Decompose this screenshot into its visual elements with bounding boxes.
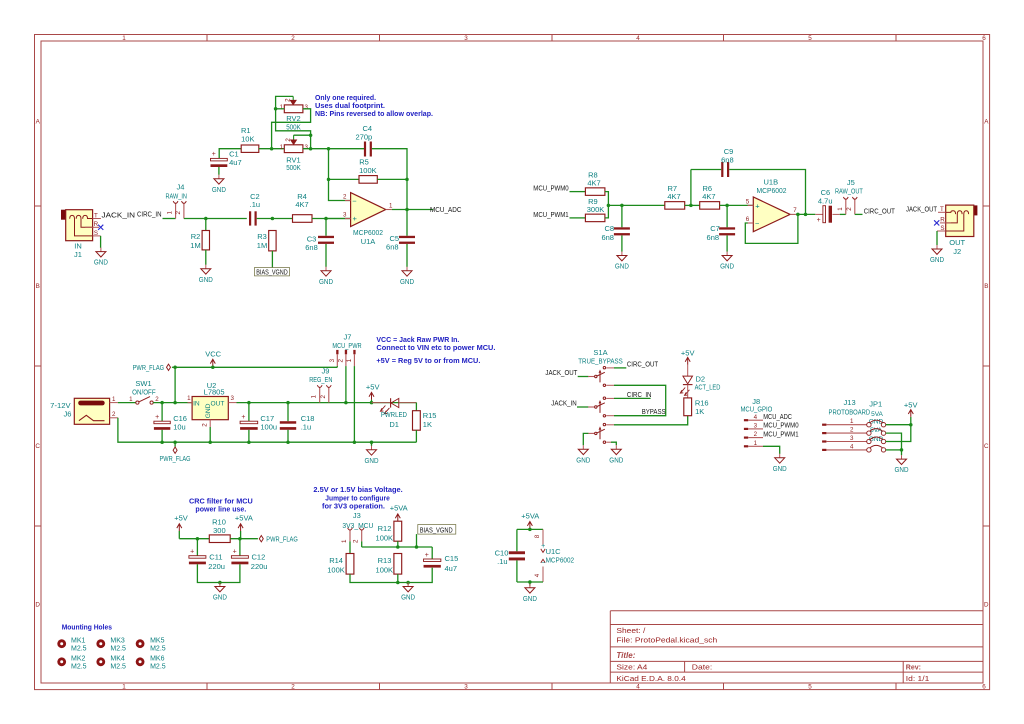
- svg-text:BIAS_VGND: BIAS_VGND: [256, 269, 288, 276]
- ground GND at C3: [325, 267, 327, 271]
- svg-text:M2.5: M2.5: [110, 664, 126, 671]
- svg-text:Size: A4: Size: A4: [616, 665, 647, 672]
- svg-text:6n8: 6n8: [305, 243, 318, 252]
- ground GND at JP1: [901, 455, 903, 459]
- wire bias mid rail: [362, 546, 433, 548]
- ground GND at S1A common: [582, 445, 584, 449]
- wire J2 sleeve to ground: [936, 231, 938, 245]
- svg-text:3: 3: [464, 35, 468, 42]
- svg-text:3: 3: [343, 212, 347, 219]
- svg-text:3: 3: [329, 358, 336, 362]
- svg-text:4K7: 4K7: [702, 192, 715, 201]
- svg-text:4.7u: 4.7u: [818, 197, 833, 206]
- svg-text:MCU_PWM0: MCU_PWM0: [533, 184, 568, 193]
- svg-text:4: 4: [850, 443, 854, 450]
- wire VCC rail: [175, 366, 337, 368]
- junction VCC rail: [211, 366, 215, 370]
- jumper JP1 element 1: [867, 423, 871, 427]
- junction at C9 branch: [689, 204, 693, 208]
- connector J4 pin 1: [175, 203, 177, 218]
- wire S1A common3 to ground: [583, 433, 588, 445]
- svg-text:+: +: [755, 202, 760, 211]
- svg-text:6n8: 6n8: [386, 243, 399, 252]
- svg-text:J3: J3: [353, 511, 361, 520]
- wire C7 top: [726, 205, 728, 227]
- junction R5 left: [327, 178, 331, 182]
- svg-text:Id: 1/1: Id: 1/1: [906, 676, 930, 683]
- svg-text:4: 4: [636, 684, 640, 691]
- mounting hole MK3: [96, 639, 105, 648]
- svg-text:10u: 10u: [173, 422, 186, 431]
- svg-text:GND: GND: [615, 262, 629, 271]
- svg-text:220u: 220u: [208, 562, 225, 571]
- mounting hole MK6: [136, 657, 145, 666]
- resistor R14: [346, 554, 354, 575]
- svg-text:ACT_LED: ACT_LED: [695, 383, 721, 392]
- svg-text:100K: 100K: [359, 166, 377, 175]
- junction at C17 top: [247, 401, 251, 405]
- svg-text:−: −: [755, 219, 760, 228]
- svg-text:GND: GND: [213, 593, 227, 602]
- svg-text:1: 1: [341, 539, 348, 543]
- svg-text:−: −: [352, 197, 357, 206]
- wire JP1 row4 to ground: [886, 449, 902, 451]
- wire C1 corner to R1: [219, 149, 241, 159]
- svg-text:1: 1: [112, 396, 116, 403]
- resistor R16: [684, 398, 692, 416]
- wire C9 right to output: [729, 170, 805, 215]
- svg-text:GND: GND: [319, 277, 333, 286]
- wire CIRC_IN to J4 pin 1: [163, 218, 176, 220]
- junction at C8 top: [620, 204, 624, 208]
- wire J6 pin1 to SW1: [118, 402, 136, 404]
- wire C6 to J5 pin1: [840, 213, 846, 215]
- junction U2 ground rail: [208, 440, 212, 444]
- ground GND at C1: [218, 175, 220, 179]
- svg-text:B: B: [984, 283, 988, 290]
- svg-text:4u7: 4u7: [445, 564, 458, 573]
- wire U2 out to +5V rail: [237, 402, 417, 404]
- wire R13 bottom: [397, 574, 399, 582]
- wire R12 bottom: [397, 541, 399, 547]
- connector J13 pin 1: [822, 424, 826, 426]
- svg-text:1: 1: [389, 202, 393, 209]
- svg-text:.1u: .1u: [250, 200, 260, 209]
- svg-text:4: 4: [636, 35, 640, 42]
- svg-text:4u7: 4u7: [229, 158, 242, 167]
- resistor R3: [269, 231, 276, 251]
- wire C9 left: [691, 169, 721, 171]
- junction bias mid: [396, 545, 400, 549]
- switch S1A pole 2: [588, 406, 594, 408]
- svg-text:4: 4: [534, 573, 541, 577]
- wire opamp pin2 vertical: [329, 149, 351, 201]
- junction U1B output feedback: [796, 213, 800, 217]
- junction at C11 top: [196, 537, 200, 541]
- wire C7 bottom: [726, 236, 728, 252]
- svg-text:R: R: [940, 216, 945, 223]
- svg-text:6n8: 6n8: [601, 233, 614, 242]
- svg-text:+: +: [212, 151, 216, 158]
- svg-text:+5VA: +5VA: [521, 512, 539, 521]
- svg-text:T: T: [94, 212, 98, 219]
- wire C17 bottom: [248, 430, 250, 442]
- svg-text:C11: C11: [209, 552, 222, 561]
- ground GND at C8: [621, 252, 623, 256]
- svg-text:OUT: OUT: [211, 400, 225, 407]
- wire D1 to R15: [415, 403, 417, 411]
- wire bias bottom rail: [350, 568, 432, 583]
- sheet border division ticks: [206, 35, 208, 42]
- op-amp U1B: [753, 197, 790, 232]
- svg-text:2: 2: [285, 98, 292, 102]
- wire opamp pin3 stub: [324, 218, 350, 220]
- junction at C7 top: [725, 204, 729, 208]
- wire R2 bottom: [205, 250, 207, 265]
- svg-text:R: R: [94, 221, 99, 228]
- svg-text:300: 300: [213, 526, 226, 535]
- wire RV1 wiper link: [294, 134, 311, 136]
- svg-text:Sheet: /: Sheet: /: [616, 628, 645, 635]
- svg-text:U1A: U1A: [361, 237, 376, 246]
- svg-text:1M: 1M: [190, 241, 200, 250]
- svg-text:Date:: Date:: [692, 665, 713, 672]
- op-amp U1C power pins: [542, 529, 544, 545]
- svg-text:3V3_MCU: 3V3_MCU: [342, 521, 373, 530]
- wire JP1 ground stem: [901, 450, 903, 455]
- svg-text:JACK_IN: JACK_IN: [102, 210, 136, 219]
- connector J13 pin 2: [822, 432, 826, 434]
- svg-text:GND: GND: [212, 185, 226, 194]
- wire U1C gnd stem: [529, 582, 531, 586]
- no-connect X on J1 ring pin: [98, 225, 103, 230]
- junction U1C bottom: [528, 580, 532, 584]
- svg-text:J4: J4: [177, 183, 185, 192]
- potentiometer RV2 body: [284, 105, 303, 113]
- wire C8 bottom: [621, 236, 623, 252]
- svg-text:MK4: MK4: [110, 656, 125, 663]
- svg-text:2: 2: [846, 207, 853, 211]
- svg-text:S: S: [94, 230, 98, 237]
- svg-text:for 3V3 operation.: for 3V3 operation.: [322, 502, 385, 511]
- no-connect X on J2 ring pin: [934, 220, 939, 225]
- svg-text:CIRC_IN: CIRC_IN: [137, 210, 162, 219]
- wire C16 top: [161, 403, 163, 422]
- wire U1C bottom rail: [517, 581, 543, 583]
- connector J7 pin 3: [336, 350, 338, 354]
- capacitor C5: [399, 236, 415, 238]
- wire R7 to R6: [685, 204, 700, 206]
- junction at C3 top: [324, 217, 328, 221]
- switch S1A pole 1: [588, 376, 594, 378]
- svg-text:PWR_FLAG: PWR_FLAG: [160, 454, 191, 463]
- jumper JP1 element 3: [867, 439, 871, 443]
- svg-text:M2.5: M2.5: [150, 664, 166, 671]
- junction main wire left: [270, 147, 274, 151]
- junction U1B output C9: [804, 213, 808, 217]
- svg-text:PWR_FLAG: PWR_FLAG: [133, 363, 165, 372]
- wire mix to R7: [608, 204, 664, 206]
- svg-text:1: 1: [129, 396, 133, 403]
- wire C8 top: [621, 205, 623, 227]
- wire SW1 to U2: [153, 402, 192, 404]
- wire U1B output: [796, 213, 815, 215]
- svg-text:2: 2: [754, 431, 758, 438]
- svg-text:2: 2: [291, 684, 295, 691]
- junction PWR_FLAG rail: [173, 366, 177, 370]
- svg-text:GND: GND: [400, 277, 414, 286]
- wire C9 branch vertical: [690, 170, 692, 206]
- wire C1 bottom: [218, 167, 220, 175]
- svg-text:GND: GND: [365, 456, 379, 465]
- svg-text:+: +: [190, 549, 194, 556]
- resistor R10: [209, 535, 230, 543]
- ground GND at R2: [205, 265, 207, 269]
- wire J4 pin 2 to C2: [184, 218, 247, 220]
- ground GND at J8: [779, 454, 781, 458]
- svg-text:3: 3: [304, 104, 308, 111]
- ground GND at C5: [406, 267, 408, 271]
- power flag PWR_FLAG at CRC: [259, 536, 263, 542]
- wire C11 top: [196, 539, 198, 556]
- svg-text:1: 1: [122, 684, 126, 691]
- svg-text:4K7: 4K7: [587, 179, 600, 188]
- connector J3 pin 1: [349, 530, 351, 542]
- wire JP1 row2 to ground: [886, 433, 902, 450]
- svg-text:+5V: +5V: [681, 348, 695, 357]
- junction CRC ground: [218, 581, 222, 585]
- jumper JP1 element 4: [867, 448, 871, 452]
- wire C18 bottom: [287, 430, 289, 442]
- mounting hole MK5: [136, 639, 145, 648]
- svg-text:MK6: MK6: [150, 656, 165, 663]
- svg-text:M2.5: M2.5: [71, 646, 87, 653]
- wire C5 top: [406, 210, 408, 236]
- wire GND stem power: [371, 442, 373, 446]
- svg-text:220u: 220u: [251, 562, 268, 571]
- mounting hole MK2: [57, 657, 66, 666]
- svg-text:MCP6002: MCP6002: [757, 186, 787, 195]
- svg-text:GND: GND: [720, 262, 734, 271]
- resistor R15: [413, 411, 421, 431]
- resistor R9: [585, 214, 605, 222]
- connector J13 pin 4: [822, 449, 826, 451]
- svg-text:270p: 270p: [356, 133, 373, 142]
- svg-text:Title:: Title:: [616, 651, 635, 660]
- svg-text:MK1: MK1: [71, 638, 86, 645]
- ground GND at C7: [726, 252, 728, 256]
- svg-text:+: +: [241, 414, 245, 421]
- svg-text:.1u: .1u: [497, 557, 507, 566]
- svg-text:4K7: 4K7: [295, 200, 308, 209]
- wire J7 pin2 to +5V rail: [345, 366, 347, 403]
- svg-text:1: 1: [187, 395, 191, 402]
- connector J5 pin 2: [854, 199, 856, 214]
- wire JP1 row1 to +5V: [886, 424, 911, 426]
- svg-text:5VA: 5VA: [871, 411, 883, 418]
- switch S1A pole 3: [588, 432, 594, 434]
- wire R3 bottom: [271, 251, 273, 268]
- svg-text:1: 1: [754, 440, 758, 447]
- svg-text:1: 1: [122, 35, 126, 42]
- wire C17 top: [248, 403, 250, 422]
- svg-text:GND: GND: [576, 455, 590, 464]
- svg-text:GND: GND: [930, 255, 944, 264]
- svg-text:R3: R3: [257, 232, 267, 241]
- resistor R2: [202, 231, 209, 250]
- jumper JP1 element 2: [867, 431, 871, 435]
- svg-text:6: 6: [982, 35, 986, 42]
- RV2 wiper arrow: [292, 96, 294, 100]
- svg-text:J1: J1: [74, 250, 82, 259]
- svg-text:2: 2: [291, 35, 295, 42]
- wire U1C top rail: [517, 528, 543, 530]
- wire J6 pin2 to ground rail: [118, 418, 162, 442]
- wire R10 to PWR_FLAG: [230, 538, 258, 540]
- wire JACK_IN to S1A common2: [577, 406, 588, 408]
- svg-text:JACK_OUT: JACK_OUT: [545, 368, 577, 377]
- wire CRC ground loop: [197, 564, 240, 582]
- wire R4 to opamp pin3: [312, 218, 351, 220]
- wire S1A throw1 up to CIRC_OUT: [606, 367, 614, 369]
- svg-text:+5V: +5V: [174, 514, 188, 523]
- svg-text:MK5: MK5: [150, 638, 165, 645]
- wire J7 pin3 to VCC rail: [336, 366, 338, 367]
- capacitor C3: [318, 236, 334, 238]
- svg-text:6: 6: [746, 216, 750, 223]
- svg-text:GND: GND: [401, 593, 415, 602]
- svg-text:R2: R2: [191, 232, 201, 241]
- svg-text:J13: J13: [844, 398, 856, 407]
- svg-text:M2.5: M2.5: [110, 646, 126, 653]
- wire D2 to R16: [687, 385, 689, 398]
- svg-text:CIRC_OUT: CIRC_OUT: [627, 360, 659, 369]
- svg-text:VCC: VCC: [205, 350, 221, 359]
- junction at C5 top: [405, 208, 409, 212]
- wire J1 sleeve to ground: [100, 236, 102, 248]
- wire RV2 pin1 stub: [276, 108, 285, 110]
- svg-text:+5V: +5V: [904, 401, 918, 410]
- junction main wire right: [309, 147, 313, 151]
- wire CRC gnd stem: [219, 583, 221, 585]
- wire S1A throw3 up to R16: [606, 424, 614, 426]
- wire C4 to right corner: [372, 149, 407, 210]
- svg-text:2: 2: [353, 539, 360, 543]
- svg-text:C6: C6: [821, 188, 831, 197]
- wire C3 bottom: [325, 244, 327, 267]
- svg-text:MCU_PWM1: MCU_PWM1: [533, 210, 568, 219]
- wire C15 top: [431, 547, 433, 559]
- svg-text:100K: 100K: [376, 566, 394, 575]
- svg-text:500K: 500K: [286, 122, 301, 131]
- wire bias gnd stem: [407, 583, 409, 585]
- connector J9 pin 2: [328, 387, 330, 402]
- svg-text:.1u: .1u: [301, 422, 311, 431]
- svg-text:5: 5: [808, 684, 812, 691]
- svg-text:100u: 100u: [260, 422, 277, 431]
- svg-text:PWRLED: PWRLED: [381, 410, 408, 419]
- ground GND at CRC: [219, 583, 221, 587]
- junction RV2 pin1: [274, 107, 278, 111]
- svg-text:L7805: L7805: [204, 388, 225, 397]
- mounting hole MK1: [57, 639, 66, 648]
- ground GND at J1: [100, 248, 102, 252]
- svg-text:S: S: [940, 225, 944, 232]
- svg-text:C15: C15: [445, 554, 459, 563]
- resistor R4: [293, 215, 313, 223]
- svg-text:+: +: [817, 217, 821, 224]
- wire power ground rail: [162, 441, 416, 443]
- wire +5V to R10: [179, 538, 209, 540]
- svg-text:RAW_IN: RAW_IN: [165, 191, 187, 200]
- svg-text:3: 3: [850, 435, 854, 442]
- svg-text:1: 1: [850, 418, 854, 425]
- svg-text:MK2: MK2: [71, 656, 86, 663]
- wire U2 gnd down: [209, 427, 211, 442]
- svg-text:+: +: [155, 414, 159, 421]
- ground GND at S1A throw: [615, 445, 617, 449]
- svg-text:R12: R12: [378, 524, 392, 533]
- LED D1 PWRLED: [372, 402, 391, 404]
- LED D2 ACT_LED: [683, 376, 693, 384]
- connector J6 barrel jack: [74, 398, 118, 424]
- wire R5 right: [377, 178, 407, 180]
- svg-text:+: +: [425, 552, 429, 559]
- resistor R7: [665, 202, 685, 210]
- wire U1A output: [392, 209, 433, 211]
- svg-text:2: 2: [112, 411, 116, 418]
- svg-text:1: 1: [166, 210, 173, 214]
- svg-text:+5V = Reg 5V to or from MCU.: +5V = Reg 5V to or from MCU.: [376, 356, 480, 365]
- junction bias vgnd tap: [415, 545, 419, 549]
- svg-text:J2: J2: [953, 247, 961, 256]
- svg-text:6n8: 6n8: [721, 155, 734, 164]
- svg-text:ON/OFF: ON/OFF: [132, 387, 156, 396]
- svg-text:KiCad E.D.A. 8.0.4: KiCad E.D.A. 8.0.4: [616, 676, 685, 683]
- svg-text:1M: 1M: [257, 241, 267, 250]
- power flag PWR_FLAG lower: [174, 442, 176, 447]
- svg-text:D: D: [35, 602, 40, 609]
- connector J13 pin 3: [822, 440, 826, 442]
- wire R5 left: [329, 178, 360, 180]
- junction at C16 top: [160, 401, 164, 405]
- svg-text:C12: C12: [252, 552, 266, 561]
- svg-text:2: 2: [285, 138, 292, 142]
- svg-text:GND: GND: [773, 464, 787, 473]
- wire JP1 row3 to +5V: [886, 425, 911, 442]
- svg-text:2: 2: [320, 395, 327, 399]
- capacitor C18: [280, 421, 296, 424]
- wire MCU_PWM1 to R9: [570, 217, 586, 219]
- wire C16 bottom: [161, 430, 163, 442]
- wire C10 bottom: [516, 560, 518, 582]
- junction C17 ground rail: [247, 440, 251, 444]
- connector J4 pin 2: [183, 203, 185, 218]
- svg-text:GND: GND: [94, 258, 108, 267]
- svg-text:GND: GND: [523, 594, 537, 603]
- wire R2 top: [205, 219, 207, 231]
- junction at C12 top: [238, 537, 242, 541]
- svg-text:2: 2: [343, 194, 347, 201]
- junction PWR_FLAG lower rail: [173, 440, 177, 444]
- junction R5 right: [405, 178, 409, 182]
- junction +5V rail: [370, 401, 374, 405]
- svg-text:PWR_FLAG: PWR_FLAG: [266, 534, 298, 543]
- svg-text:1: 1: [346, 358, 353, 362]
- wire VCC rail down to switch row: [174, 367, 176, 402]
- wire R1 to RV1: [259, 148, 285, 150]
- wire C18 top: [287, 403, 289, 422]
